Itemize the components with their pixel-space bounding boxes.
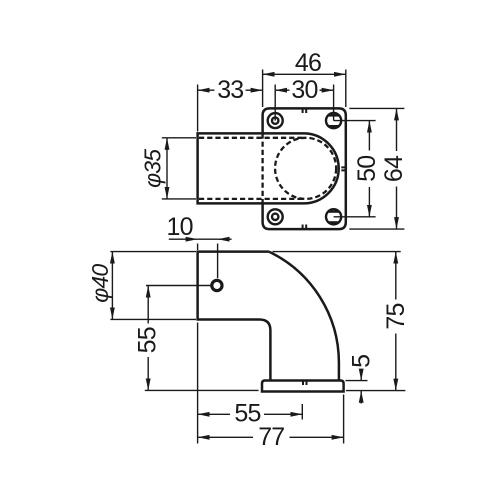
dimension 33: arrows outward [198, 89, 215, 91]
dimension phi35: line with arrows [166, 138, 168, 199]
dimension 55 vertical: line segments with arrows [147, 286, 149, 324]
dimension 50: extension lines through right holes [334, 121, 376, 217]
dimension 10: extension lines [198, 244, 218, 279]
svg-text:33: 33 [217, 76, 243, 104]
screw hole top-left [268, 113, 283, 128]
center tick marks plate top edge [303, 109, 307, 113]
dimension 46: line with arrows [263, 73, 346, 75]
bore hidden line top [199, 137, 306, 139]
svg-text:5: 5 [348, 355, 376, 368]
dimension 55 horizontal: extension lines [198, 323, 303, 444]
svg-text:30: 30 [291, 76, 317, 104]
plate left edge hidden line [261, 133, 263, 203]
dimension 5: inward arrows [360, 371, 362, 381]
dimension phi35: extension lines [162, 138, 196, 199]
elbow body outline [198, 252, 339, 381]
dimension 77: line segments with arrows [198, 436, 253, 438]
dimension 55 vertical: extension lines [145, 286, 259, 391]
dimension 10: inward arrows [169, 238, 198, 240]
dimension 30: extension lines [275, 85, 333, 121]
dimension 30: arrows outward [275, 89, 289, 91]
svg-text:50: 50 [353, 156, 381, 182]
svg-text:77: 77 [258, 423, 284, 451]
screw hole top-right (slotted) [326, 113, 341, 128]
center tick marks flange top edge [303, 381, 307, 385]
dimension 33: extension line left [197, 85, 199, 132]
svg-text:10: 10 [166, 213, 192, 241]
dimension 55 horizontal: line segments with arrows [198, 413, 230, 415]
center tick marks plate bottom edge [303, 225, 307, 229]
screw hole bottom-right (slotted) [326, 209, 341, 224]
dimension 75: extension lines [273, 252, 406, 391]
svg-text:64: 64 [380, 155, 408, 182]
svg-text:φ35: φ35 [139, 149, 165, 188]
svg-text:46: 46 [295, 49, 321, 77]
dimension 77: extension line right [343, 395, 345, 444]
socket boss outline (stadium) [198, 133, 339, 203]
set screw hole [212, 280, 222, 290]
bore hidden line bottom [199, 198, 306, 200]
dimension 64: extension lines [349, 108, 404, 229]
bore hidden circle [275, 138, 336, 199]
dimension phi40: extension lines [110, 252, 196, 320]
dimension phi40: line with arrows [111, 252, 113, 320]
screw hole bottom-left [268, 209, 283, 224]
dimension 5: extension line [346, 380, 368, 382]
svg-text:75: 75 [382, 303, 410, 329]
center tick marks plate right edge [341, 167, 345, 170]
svg-text:φ40: φ40 [87, 264, 113, 303]
dimension 75: line segments with arrows [395, 252, 397, 300]
dimension 46: extension lines [263, 70, 346, 108]
dimension 50: line segments with arrows [368, 121, 370, 151]
flange plate outline (front view, left edge hidden behind socket) [263, 108, 346, 229]
svg-text:55: 55 [234, 400, 260, 428]
svg-text:55: 55 [134, 327, 162, 353]
dimension 64: line segments with arrows [396, 108, 398, 151]
wall flange (side view) [262, 381, 344, 392]
